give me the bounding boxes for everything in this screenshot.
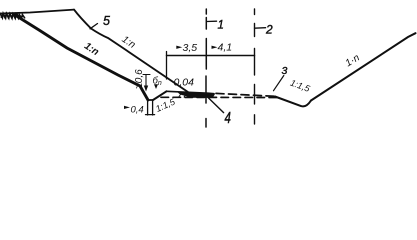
lane edge line 2: [254, 9, 256, 124]
label 1:n thin: [120, 34, 138, 51]
dim mid tick below: [205, 56, 207, 67]
ditch bottom: [148, 99, 153, 101]
label 1:n right: [344, 52, 362, 69]
callout 3 leader: [274, 76, 284, 91]
svg-text:1·n: 1·n: [344, 52, 362, 69]
ground line left: [0, 10, 74, 14]
dim arrow 3,5: [176, 46, 182, 49]
svg-text:4,1: 4,1: [218, 42, 233, 54]
dim left extension: [166, 52, 168, 80]
right shoulder dip: [275, 97, 311, 107]
label 1:1,5 left: [154, 96, 177, 114]
svg-text:0,4: 0,4: [131, 105, 144, 116]
svg-text:3,5: 3,5: [183, 42, 198, 54]
wedge hatch strokes: [179, 93, 187, 98]
dim 0,6 arrow line: [145, 75, 147, 88]
svg-text:≥0,6: ≥0,6: [134, 69, 145, 89]
surface dashed lower: [161, 96, 277, 98]
road surface solid: [167, 91, 215, 93]
cut slope thick 1:n: [15, 15, 148, 100]
dim 0,6 vertical label: [134, 69, 145, 89]
dim 0,6 top tick: [143, 74, 150, 76]
svg-text:4: 4: [225, 108, 232, 126]
ground thin diagonal 1:n: [74, 10, 189, 93]
centerline axis 1: [205, 9, 207, 127]
callout 2 tick: [255, 27, 266, 30]
svg-text:1:1,5: 1:1,5: [289, 78, 312, 95]
svg-text:5: 5: [103, 14, 110, 28]
ditch width dim closure: [146, 114, 155, 116]
svg-text:0,04: 0,04: [174, 77, 195, 89]
svg-text:1: 1: [218, 20, 224, 32]
right ground slope 1:n: [311, 33, 416, 100]
svg-text:1:n: 1:n: [82, 41, 101, 58]
dim arrow 4,1: [212, 46, 218, 49]
callout 4 leader: [207, 96, 224, 113]
label 1:1,5 right: [289, 78, 312, 95]
pavement wedge hatched: [177, 92, 215, 98]
svg-text:3: 3: [282, 65, 288, 77]
ground hatch left: [0, 13, 25, 18]
svg-text:2: 2: [265, 23, 273, 37]
bn arrow: [154, 84, 158, 89]
callout 1 tick: [207, 20, 217, 22]
ditch width extension lines: [147, 101, 149, 116]
surface dashed right upper: [216, 93, 277, 96]
label 1:n thick: [82, 41, 101, 58]
dim arrow 0,4: [124, 106, 130, 109]
svg-text:1:1,5: 1:1,5: [154, 96, 177, 114]
callout 5 leader: [90, 24, 98, 29]
dimension line: [167, 55, 255, 57]
ditch inner slope 1:1.5: [153, 91, 167, 100]
